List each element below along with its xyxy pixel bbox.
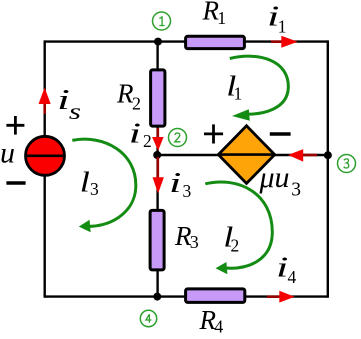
current arrow i1 (right, on top wire) <box>271 36 298 48</box>
node 3 junction dot <box>324 151 332 159</box>
label R3 <box>174 221 199 252</box>
plus sign of source u <box>6 116 24 135</box>
svg-text:2: 2 <box>231 236 240 256</box>
label l3 <box>80 167 99 199</box>
svg-text:2: 2 <box>143 131 152 151</box>
svg-text:3: 3 <box>183 181 192 201</box>
node 1 junction dot <box>154 38 162 46</box>
resistor R2 (upper middle vertical) <box>151 70 165 126</box>
svg-text:1: 1 <box>278 17 287 37</box>
svg-text:4: 4 <box>288 267 297 287</box>
svg-text:2: 2 <box>132 94 141 114</box>
node label 2 (green circled digit) <box>169 129 187 147</box>
loop arrow l1 (clockwise arc, top right mesh) <box>230 56 289 121</box>
current arrow into node 3 (left, on middle wire) <box>288 149 317 162</box>
label i4 <box>276 252 297 286</box>
loop arrow l3 (clockwise arc, left mesh) <box>72 139 136 232</box>
node 4 junction dot <box>153 293 161 301</box>
plus sign of dependent source <box>204 124 223 143</box>
wire right <box>327 40 329 297</box>
label i2 <box>129 119 152 151</box>
label R2 <box>116 79 141 114</box>
svg-text:3: 3 <box>291 180 301 201</box>
node label 1 (green circled digit) <box>153 12 171 30</box>
current arrow is (up, on left wire) <box>39 88 51 115</box>
svg-text:l: l <box>80 167 90 198</box>
node label 3 (green circled digit) <box>338 155 356 173</box>
svg-text:4: 4 <box>214 317 223 337</box>
wire middle vertical (node1 to node4 through R2, R3) <box>156 42 158 297</box>
current source is (red circle with bar) <box>26 136 65 175</box>
label R1 <box>202 0 227 28</box>
node 2 junction dot <box>153 151 161 159</box>
svg-text:3: 3 <box>90 179 99 199</box>
dependent source u3 (orange diamond) <box>218 126 274 184</box>
resistor R4 (bottom) <box>186 289 245 303</box>
resistor R3 (lower middle vertical) <box>150 210 164 270</box>
label i1 <box>267 1 287 36</box>
svg-text:i: i <box>129 119 141 150</box>
label is <box>57 84 81 124</box>
label i3 <box>169 168 192 201</box>
wire left (top corner down to bottom corner) <box>44 40 46 297</box>
current arrow i3 (down, below node 2) <box>153 157 164 194</box>
label l1 <box>226 71 242 103</box>
svg-text:1: 1 <box>217 8 226 28</box>
wire top (node1 area, left corner to right corner) <box>45 40 328 42</box>
current arrow i4 (right, on bottom wire) <box>267 291 295 303</box>
node label 4 (green circled digit) <box>140 310 156 326</box>
wire bottom <box>45 295 328 297</box>
svg-text:u: u <box>0 137 15 170</box>
resistor R1 (top) <box>186 36 245 48</box>
wire middle horizontal (node2 to node3 through dependent source) <box>158 154 328 156</box>
label l2 <box>223 222 239 255</box>
svg-text:s: s <box>69 99 81 124</box>
minus sign of source u <box>6 181 25 185</box>
svg-text:i: i <box>169 168 181 199</box>
minus sign of dependent source <box>270 132 291 136</box>
label R4 <box>199 305 224 337</box>
current arrow i2 (down, below R2) <box>152 128 164 151</box>
svg-text:μu: μu <box>259 161 290 194</box>
label mu*u3 (dependent source value) <box>259 161 302 201</box>
loop arrow l2 (clockwise arc, bottom right mesh) <box>205 182 272 274</box>
svg-text:3: 3 <box>190 232 199 252</box>
svg-text:1: 1 <box>234 84 243 104</box>
